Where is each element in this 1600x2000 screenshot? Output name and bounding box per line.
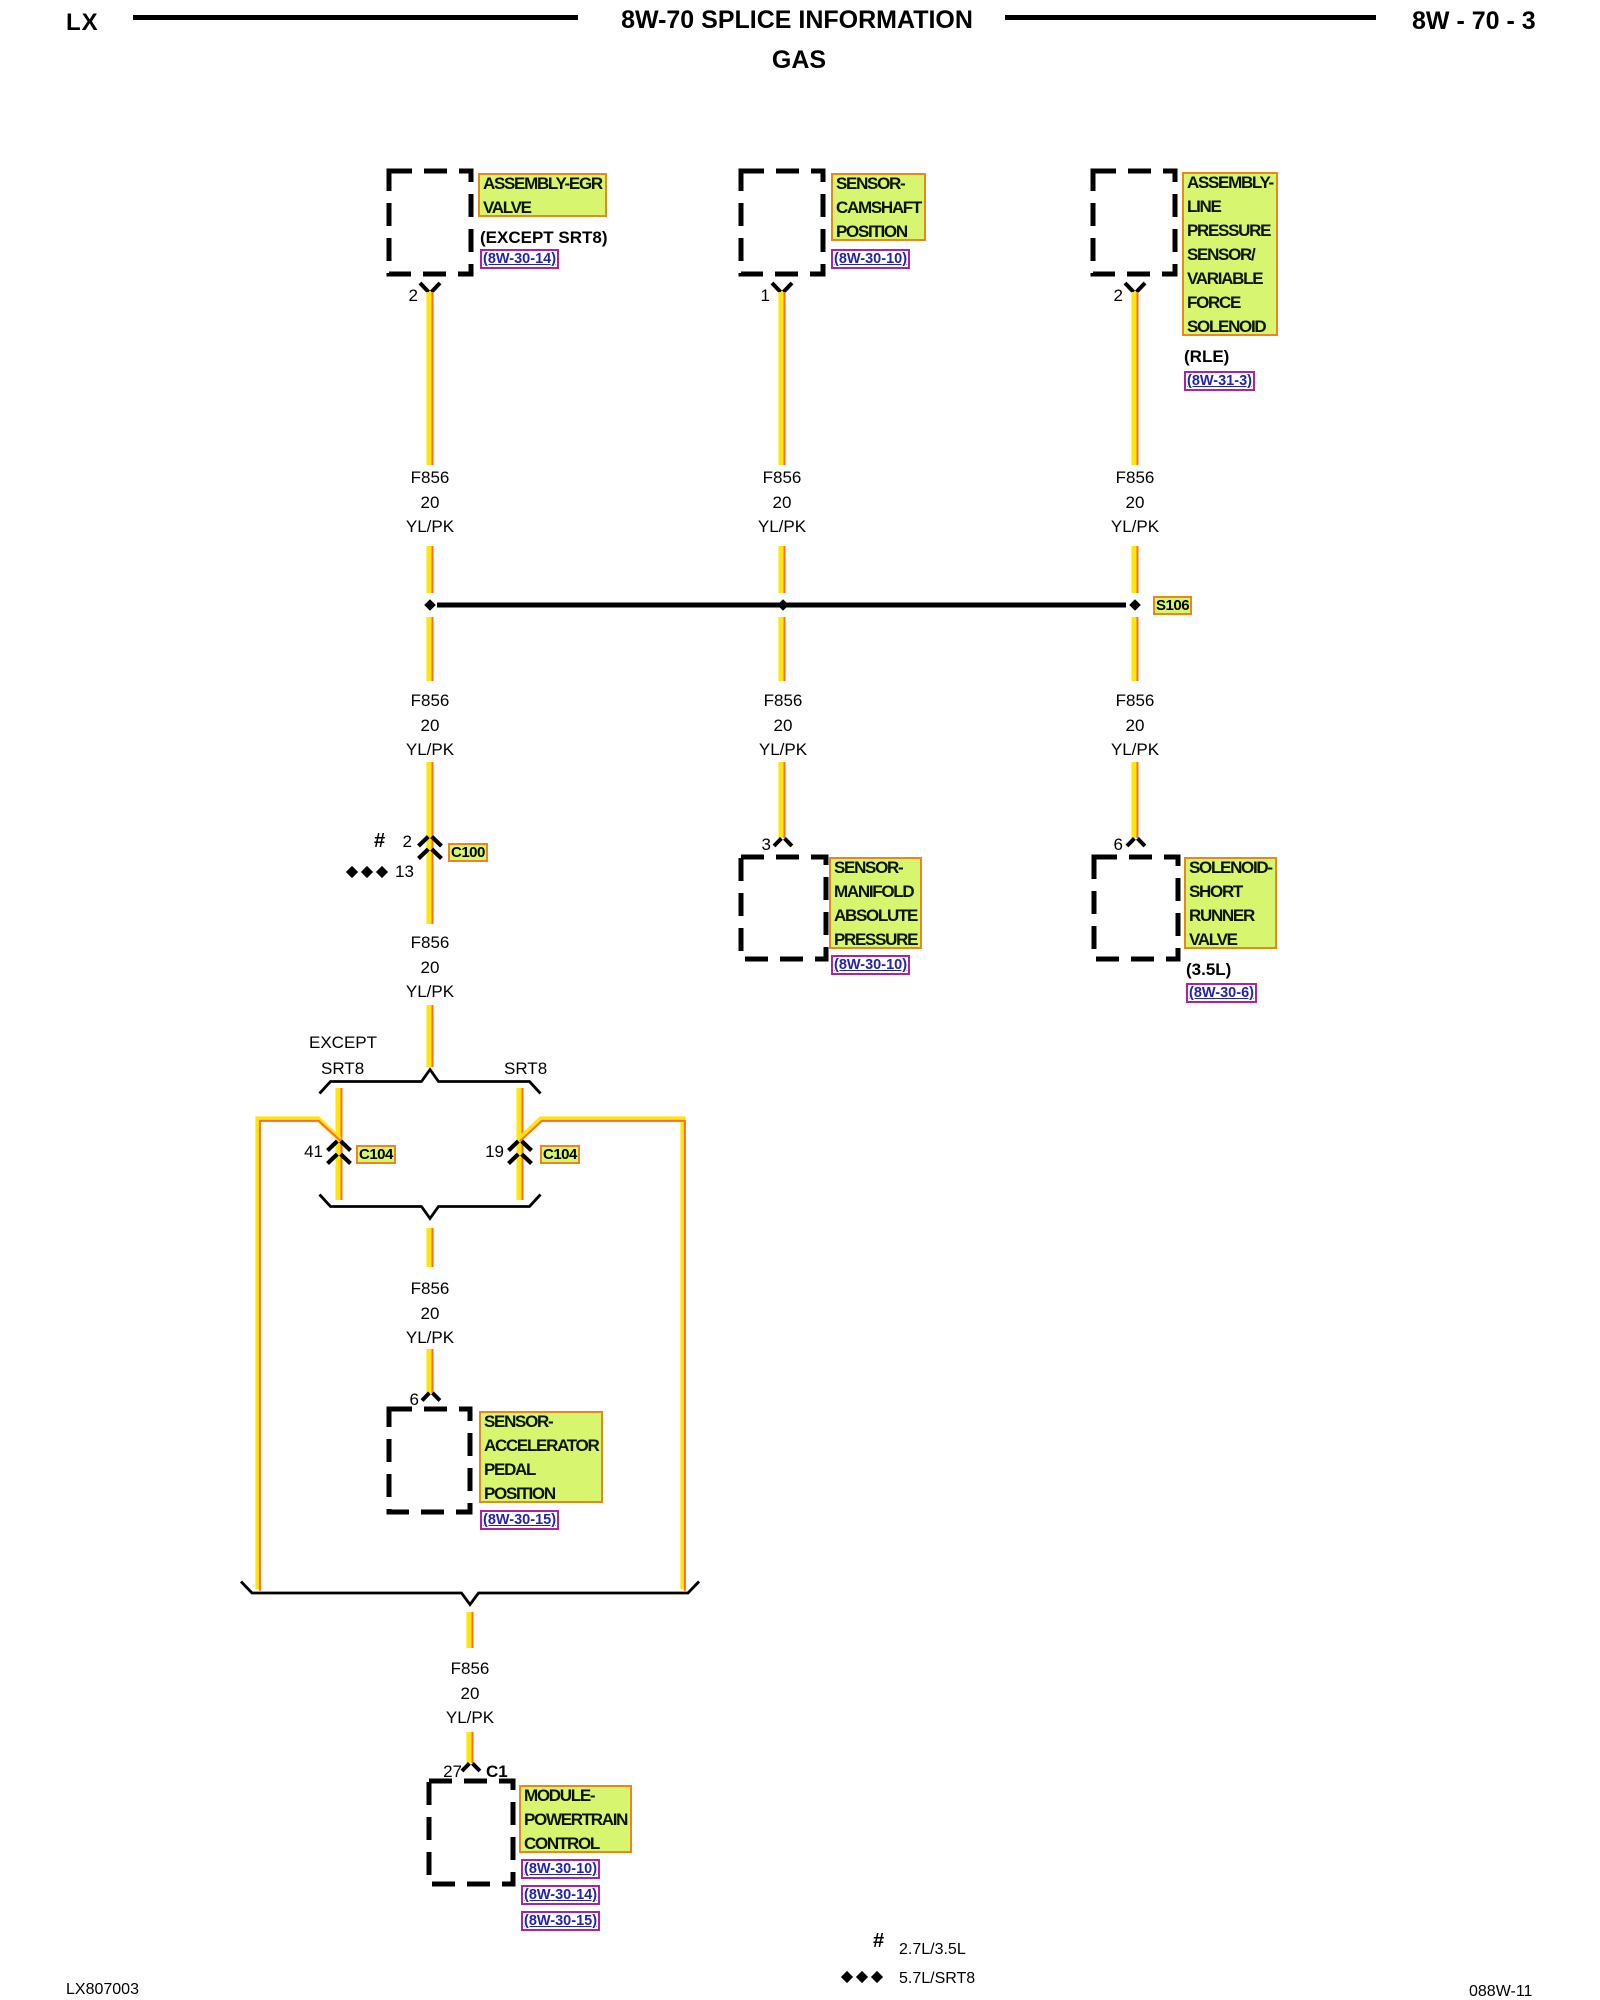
wire col1 seg4 through C100 <box>427 762 432 924</box>
wire label F856 20 YL/PK col3 upper <box>1065 466 1205 540</box>
pin 1 col2 <box>730 287 770 304</box>
splice junction diamond col3 S106 <box>1129 599 1141 611</box>
header rule left <box>133 15 578 20</box>
label SRT8 right <box>504 1060 547 1077</box>
connector pin-6 arrow at short runner valve solenoid <box>1127 838 1145 846</box>
wire label F856 20 YL/PK col2 lower <box>713 689 853 763</box>
label powertrain control module <box>519 1785 632 1853</box>
label RLE <box>1184 348 1229 365</box>
connector label C104 right <box>540 1145 580 1164</box>
connector box powertrain control module (dashed) <box>429 1781 513 1884</box>
splice S106 bus line <box>437 603 1126 608</box>
bypass wire right to C104 <box>519 1119 683 1589</box>
wire col3 seg2 <box>1132 546 1137 593</box>
wire col2 seg4 to MAP sensor <box>779 762 784 838</box>
wire col2 seg2 <box>779 546 784 593</box>
legend 2.7L/3.5L <box>899 1941 966 1958</box>
footer left LX807003 <box>66 1981 139 1998</box>
connector box short runner valve solenoid (dashed) <box>1094 857 1178 959</box>
merge brace below C104 <box>320 1195 541 1219</box>
footer right 088W-11 <box>1469 1983 1532 2000</box>
wire col1 seg1 <box>427 292 432 465</box>
wire col2 seg1 <box>779 292 784 465</box>
link 8W-30-10 MAP <box>831 955 910 975</box>
branch wire left (EXCEPT SRT8) <box>336 1088 341 1200</box>
pin arrow accelerator pedal sensor <box>422 1393 440 1401</box>
connector label C100 <box>448 843 488 862</box>
branch wire right (SRT8) <box>517 1088 522 1200</box>
pin 27 PCM <box>422 1763 462 1780</box>
link 8W-30-10 <box>831 249 910 269</box>
wire label F856 20 YL/PK below C100 <box>360 931 500 1005</box>
label line pressure sensor assembly <box>1182 172 1278 336</box>
pin 13 C100 <box>395 863 414 880</box>
link 8W-30-15 PCM <box>521 1911 600 1931</box>
pin 6 pedal sensor <box>379 1391 419 1408</box>
link 8W-30-14 <box>480 249 559 269</box>
label MAP sensor <box>829 857 922 949</box>
connector pin-3 arrow at MAP sensor <box>774 838 792 846</box>
link 8W-30-14 PCM <box>521 1885 600 1905</box>
splice label S106 <box>1153 596 1192 615</box>
connector box EGR valve (dashed) <box>389 171 471 274</box>
header rule right <box>1005 15 1376 20</box>
wire col2 seg3 <box>779 617 784 681</box>
label short runner valve solenoid <box>1184 857 1277 949</box>
wire label F856 20 YL/PK col3 lower <box>1065 689 1205 763</box>
big merge brace to PCM <box>241 1582 699 1605</box>
connector label C104 left <box>356 1145 396 1164</box>
legend hash <box>873 1933 884 1950</box>
wire to accelerator pedal sensor seg1 <box>427 1228 432 1267</box>
pin 3 MAP sensor <box>731 836 771 853</box>
label 3.5L <box>1186 961 1231 978</box>
wire col3 seg3 <box>1132 617 1137 681</box>
pin arrow PCM C1 <box>462 1763 480 1771</box>
connector box MAP sensor (dashed) <box>741 857 826 959</box>
split brace (EXCEPT SRT8 / SRT8) <box>320 1070 541 1094</box>
wire to PCM seg2 <box>467 1732 472 1763</box>
label EXCEPT <box>309 1034 377 1051</box>
connector pin-2 Y symbol at EGR valve <box>420 283 440 292</box>
connector box camshaft sensor (dashed) <box>741 171 823 274</box>
pin 2 col1 <box>378 287 418 304</box>
C100 legend diamonds <box>346 866 388 878</box>
connector box line pressure sensor (dashed) <box>1093 171 1175 274</box>
symbol hash at C100 <box>374 833 385 850</box>
link 8W-31-3 <box>1184 371 1255 391</box>
bypass wire left to C104 <box>258 1119 340 1589</box>
pin 6 solenoid <box>1083 836 1123 853</box>
wire to PCM seg1 <box>467 1612 472 1648</box>
wire col1 seg5 to split brace <box>427 1005 432 1067</box>
wire label F856 20 YL/PK to pedal sensor <box>360 1277 500 1351</box>
pin 2 col3 <box>1083 287 1123 304</box>
pin 19 C104 <box>464 1143 504 1160</box>
label EGR valve <box>478 173 607 217</box>
label accelerator pedal position sensor <box>479 1411 603 1503</box>
link 8W-30-10 PCM <box>521 1859 600 1879</box>
wire col3 seg4 to short runner solenoid <box>1132 762 1137 838</box>
wire col3 seg1 <box>1132 292 1137 465</box>
wire label F856 20 YL/PK col1 upper <box>360 466 500 540</box>
splice junction diamond col2 <box>777 599 789 611</box>
header GAS <box>772 48 826 73</box>
wire col1 seg3 <box>427 617 432 681</box>
connector pin-1 Y symbol at camshaft sensor <box>772 283 792 292</box>
connector box accelerator pedal position sensor (dashed) <box>389 1409 470 1512</box>
header LX <box>66 11 99 35</box>
connector C104 right chevrons <box>509 1141 532 1163</box>
legend 5.7L/SRT8 <box>899 1970 975 1987</box>
wire label F856 20 YL/PK to PCM <box>400 1657 540 1731</box>
pin 41 C104 <box>283 1143 323 1160</box>
connector C100 chevrons <box>419 837 442 859</box>
splice junction diamond col1 <box>424 599 436 611</box>
wire label F856 20 YL/PK col2 upper <box>712 466 852 540</box>
connector pin-2 Y symbol at line pressure sensor <box>1125 283 1145 292</box>
header page number <box>1412 9 1536 34</box>
label SRT8 left <box>321 1060 364 1077</box>
link 8W-30-6 <box>1186 983 1257 1003</box>
connector C104 left chevrons <box>328 1141 351 1163</box>
label camshaft position sensor <box>831 173 926 241</box>
wire label F856 20 YL/PK col1 lower <box>360 689 500 763</box>
connector label C1 <box>486 1763 508 1780</box>
wire to accelerator pedal sensor seg2 <box>427 1349 432 1393</box>
wire col1 seg2 <box>427 546 432 593</box>
link 8W-30-15 <box>480 1510 559 1530</box>
header title <box>621 8 973 33</box>
label except srt8 <box>480 229 608 246</box>
legend diamonds 5.7L/SRT8 <box>841 1971 883 1983</box>
pin 2 C100 <box>384 833 412 850</box>
